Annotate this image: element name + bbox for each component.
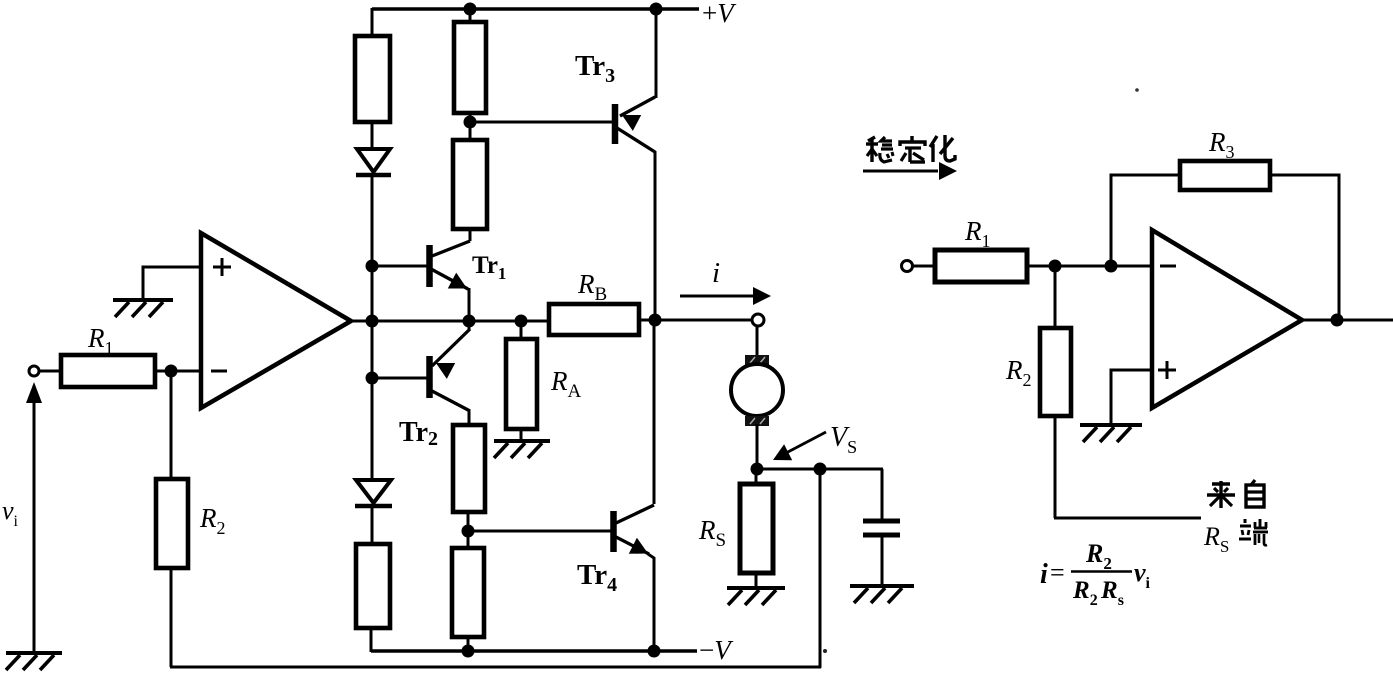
wire output bus y=321 [351, 320, 550, 323]
wire node Vs to capacitor branch [757, 468, 883, 471]
transistor Tr2 [426, 356, 433, 398]
resistor (lower bias, left chain) [356, 544, 390, 628]
vi source arrow [33, 398, 36, 652]
wire R2 bottom down [170, 566, 173, 667]
arrow (VS pointer) [786, 432, 826, 453]
op-amp U2 + input sign [1158, 369, 1176, 372]
wire Tr2 collector down [468, 410, 471, 425]
wire diode D2 to resistor [371, 506, 374, 544]
capacitor C1 [863, 519, 900, 524]
node -V rail / chain [462, 645, 475, 658]
node (output / feedback) [1331, 314, 1344, 327]
resistor (upper bias, left chain) [355, 36, 390, 122]
wire resistor to diode D1 [371, 122, 374, 149]
wire R1 to op-amp inverting input [155, 370, 201, 373]
node Vs [751, 463, 764, 476]
label 来自 [1207, 480, 1264, 508]
node +V rail / Tr3 emitter [650, 3, 663, 16]
svg-text:i: i [1040, 559, 1048, 590]
wire capacitor to ground [881, 535, 884, 586]
wire Tr4 emitter elbow [648, 554, 654, 652]
svg-text:i: i [712, 257, 720, 289]
resistor R1 [61, 355, 155, 387]
wire RA to ground [520, 429, 523, 441]
ground (op-amp U2 + input) [1080, 425, 1142, 442]
wire node J down to R2 [1054, 266, 1057, 328]
node -V rail / Tr4 emitter [648, 645, 661, 658]
wire + input to ground (right) [1111, 370, 1152, 424]
current arrow i [680, 295, 754, 298]
wire RS to ground [755, 572, 758, 587]
resistor RA [506, 339, 537, 429]
power rail -V [371, 649, 697, 653]
wire RA top [520, 321, 523, 339]
resistor (Tr2 collector) [453, 425, 485, 512]
wire capacitor top [881, 469, 884, 521]
wire output node to load terminal [655, 319, 752, 322]
node E (emitters junction) [463, 315, 476, 328]
wire R2 to RS terminal (来自RS端) [1054, 517, 1201, 520]
resistor R3 [1180, 161, 1270, 190]
op-amp U1 + input sign [213, 266, 231, 269]
wire node C to Tr2 base [372, 377, 427, 380]
op-amp U2 - input sign [1160, 265, 1176, 268]
node J (R2 tap) [1049, 260, 1062, 273]
svg-text:−V: −V [699, 635, 734, 665]
wire R3 to output [1270, 175, 1339, 320]
resistor R2 (right) [1040, 328, 1071, 416]
motor M brush bottom [745, 416, 769, 426]
resistor RS [740, 484, 773, 573]
node K (feedback tap) [1105, 260, 1118, 273]
terminal (load output) [752, 314, 764, 326]
wire resistor to -V rail [467, 637, 470, 652]
motor M body [731, 364, 783, 416]
ground (RA) [494, 441, 550, 458]
resistor (lower, chain2) [453, 140, 487, 229]
wire resistor to -V rail [370, 628, 373, 652]
wire main vertical (op-amp output bus) [371, 175, 374, 480]
wire terminal to motor [756, 326, 759, 355]
motor M brush top [745, 355, 769, 365]
node H (output node) [649, 314, 662, 327]
node F (RA tap) [515, 315, 528, 328]
node A (inverting input junction) [165, 365, 178, 378]
speck artifact [1135, 88, 1139, 92]
ground (capacitor) [850, 586, 914, 603]
resistor RB [549, 304, 639, 335]
node D (Tr3 base tap) [464, 116, 477, 129]
node top rail left chain [371, 8, 374, 36]
op-amp U2 [1152, 230, 1302, 408]
wire Tr1 emitter down to node E [468, 288, 471, 321]
op-amp U1 [201, 233, 351, 408]
wire feedback bottom run (from Vs node to R2) [170, 666, 821, 669]
wire node G to Tr4 base [468, 530, 611, 533]
wire R1 to op-amp U2 inverting input [1027, 265, 1152, 268]
diode D1 [357, 149, 390, 172]
node +V rail / chain2 [464, 3, 477, 16]
node G (Tr4 base tap) [462, 525, 475, 538]
node (feedback tap) [814, 463, 827, 476]
wire Vs to RS [755, 469, 758, 484]
input terminal (right circuit) [902, 261, 913, 272]
ground (op-amp + input) [113, 300, 173, 317]
input terminal (vi input) [29, 366, 39, 376]
wire RB to output node [639, 319, 656, 322]
node C (Tr2 base) [366, 372, 379, 385]
transistor Tr1 [426, 245, 433, 287]
diode D2 [356, 480, 391, 503]
wire between chain2 resistors [469, 113, 472, 140]
transistor Tr3 [612, 104, 619, 144]
ground (RS) [727, 588, 785, 605]
wire node D to Tr3 base [470, 121, 612, 124]
op-amp U1 - input sign [211, 370, 227, 373]
transistor Tr4 [610, 511, 617, 552]
power rail +V [372, 7, 699, 11]
wire chain2 to Tr1 collector [469, 229, 472, 241]
wire motor to node Vs [756, 424, 759, 470]
wire node E down to Tr2 emitter [468, 321, 471, 331]
wire node A down to R2 [170, 371, 173, 479]
wire Tr3 emitter vertical [655, 9, 658, 98]
wire node K up to R3 [1111, 175, 1180, 266]
speck artifact 2 [823, 649, 827, 653]
wire Tr3 collector to output node [654, 151, 657, 321]
svg-text:+V: +V [702, 0, 737, 28]
resistor R2 [156, 479, 188, 568]
label (stabilization) 稳定化 [866, 135, 955, 162]
wire input to R1 [40, 370, 61, 373]
ground (vi source) [6, 653, 62, 670]
wire Tr4 collector to output node [653, 321, 656, 504]
arrow (stabilization) [863, 170, 938, 173]
wire op-amp U2 output [1302, 319, 1393, 322]
wire feedback vertical (x=820) [819, 469, 822, 668]
wire rail to resistor [469, 9, 472, 22]
wire to node G [467, 512, 470, 548]
wire R2 bottom down [1054, 414, 1057, 518]
node B (Tr1 base) [366, 260, 379, 273]
wire node B to Tr1 base [372, 265, 427, 268]
resistor R1 (right) [935, 250, 1027, 282]
svg-text:=: = [1050, 558, 1065, 587]
resistor (chain to -V) [452, 548, 484, 637]
resistor (upper, chain2) [454, 22, 486, 113]
wire input to R1 right [913, 265, 935, 268]
node (op-amp output) [366, 315, 379, 328]
wire + input to ground [143, 267, 201, 299]
